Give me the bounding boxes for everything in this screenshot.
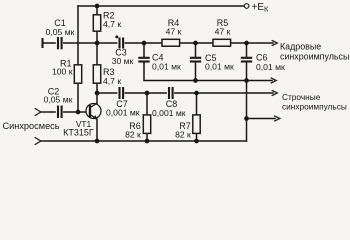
resistor R2 (93, 15, 100, 31)
wire: R7 column (196, 93, 198, 141)
capacitor C1 (56, 37, 63, 49)
label VT1 (63, 119, 94, 138)
arrow: input to bottom rail (35, 138, 41, 145)
svg-text:0,01 мк: 0,01 мк (152, 62, 181, 72)
svg-text:синхроимпульсы: синхроимпульсы (280, 51, 349, 61)
wire: C4 column and ground bus to arrow (144, 43, 272, 81)
label C3 with asterisk (112, 35, 134, 65)
svg-text:82 к: 82 к (125, 130, 141, 140)
svg-text:100 к: 100 к (52, 67, 73, 77)
label C5 (205, 53, 234, 71)
resistor R5 (213, 39, 231, 46)
svg-text:0,05 мк: 0,05 мк (46, 27, 75, 37)
resistor R1 (74, 65, 81, 83)
label C1 (46, 18, 75, 37)
svg-text:0,001 мк: 0,001 мк (152, 108, 186, 118)
junction: base node (76, 110, 81, 115)
arrow: input to C2 (35, 109, 41, 116)
svg-text:30 мк: 30 мк (112, 56, 134, 66)
wire: left column from rail through R1 to base node (77, 6, 79, 112)
junction: node A / C6 (244, 41, 249, 46)
wire: R2 column from rail to node A (96, 6, 98, 43)
wire: collector lead (96, 93, 98, 103)
wire: node B horizontal (C7-C8 row) (97, 92, 273, 94)
svg-text:Синхросмесь: Синхросмесь (3, 121, 60, 131)
junction: node B / collector-R3 (95, 91, 100, 96)
label R6 (125, 121, 141, 140)
junction: emitter at bottom rail (95, 139, 100, 144)
input terminal bar (41, 38, 43, 48)
capacitor C8 (167, 87, 174, 99)
capacitor C3 (117, 38, 124, 49)
capacitor C5 (190, 58, 201, 62)
svg-text:4,7 к: 4,7 к (103, 19, 121, 29)
label R2 (103, 11, 121, 30)
transistor VT1 (86, 103, 101, 120)
resistor R4 (162, 39, 180, 46)
label Strochnye output (282, 92, 347, 111)
wire: emitter column (96, 120, 98, 142)
svg-text:Кадровые: Кадровые (280, 41, 321, 51)
+Ek supply terminal (244, 4, 249, 9)
svg-text:0,01 мк: 0,01 мк (205, 62, 234, 72)
capacitor C4 (138, 58, 149, 62)
svg-text:47 к: 47 к (166, 26, 182, 36)
svg-text:0,01 мк: 0,01 мк (256, 62, 285, 72)
capacitor C6 (241, 58, 252, 62)
junction: node B / R7 (194, 91, 199, 96)
capacitor C2 (56, 106, 63, 119)
junction: node A / R2-R3 (95, 41, 100, 46)
label R1 (52, 58, 73, 76)
label C2 (44, 86, 73, 104)
junction: R7 at bottom rail (194, 139, 199, 144)
wire: +Ek top rail (78, 5, 244, 7)
label C8 (152, 99, 186, 118)
junction: bus / C5 (193, 78, 198, 83)
junction: bus / C6 (244, 78, 249, 83)
resistor R6 (143, 115, 150, 133)
junction: C6 column output tap (244, 116, 249, 121)
wire: R6 column (146, 93, 148, 141)
label R3 (103, 67, 121, 86)
arrow: bus output (271, 78, 276, 83)
arrow: Strochnye output (272, 91, 277, 96)
junction: R2 top at +Ek rail (95, 4, 100, 9)
label R7 (175, 121, 191, 140)
wire: C6 column down to bottom rail (246, 43, 248, 141)
label R5 (215, 18, 231, 36)
wire: R3/collector column from node A to wire B (96, 43, 98, 93)
resistor R3 (93, 65, 100, 83)
svg-text:4,7 к: 4,7 к (103, 76, 121, 86)
junction: node B / R6 (145, 91, 150, 96)
svg-text:синхроимпульсы: синхроимпульсы (282, 102, 347, 112)
label C6 (256, 52, 285, 71)
wire: bottom rail (41, 140, 247, 142)
label C4 (152, 52, 181, 71)
wire: node A horizontal (C1-R2-C3-R4-R5 row) (43, 42, 274, 44)
arrows (35, 41, 280, 145)
svg-text:0,001 мк: 0,001 мк (106, 108, 140, 118)
label Kadrovye output (280, 41, 349, 61)
svg-text:0,05 мк: 0,05 мк (44, 95, 73, 105)
wire: base input row (41, 111, 91, 113)
svg-text:КТ315Г: КТ315Г (63, 128, 94, 138)
arrow: Kadrovye output (272, 41, 277, 46)
wire: lower output tap (247, 118, 276, 120)
junction: node A / C5 (193, 41, 198, 46)
wire: C5 column (195, 43, 197, 81)
resistor R7 (193, 115, 200, 133)
svg-text:82 к: 82 к (175, 130, 191, 140)
label R4 (166, 18, 182, 36)
junction: node A / C4 (142, 41, 147, 46)
capacitor C7 (117, 87, 124, 99)
label C7 (106, 99, 140, 118)
svg-text:47 к: 47 к (215, 26, 231, 36)
junction: R6 at bottom rail (145, 139, 150, 144)
arrow: lower output (275, 116, 280, 121)
